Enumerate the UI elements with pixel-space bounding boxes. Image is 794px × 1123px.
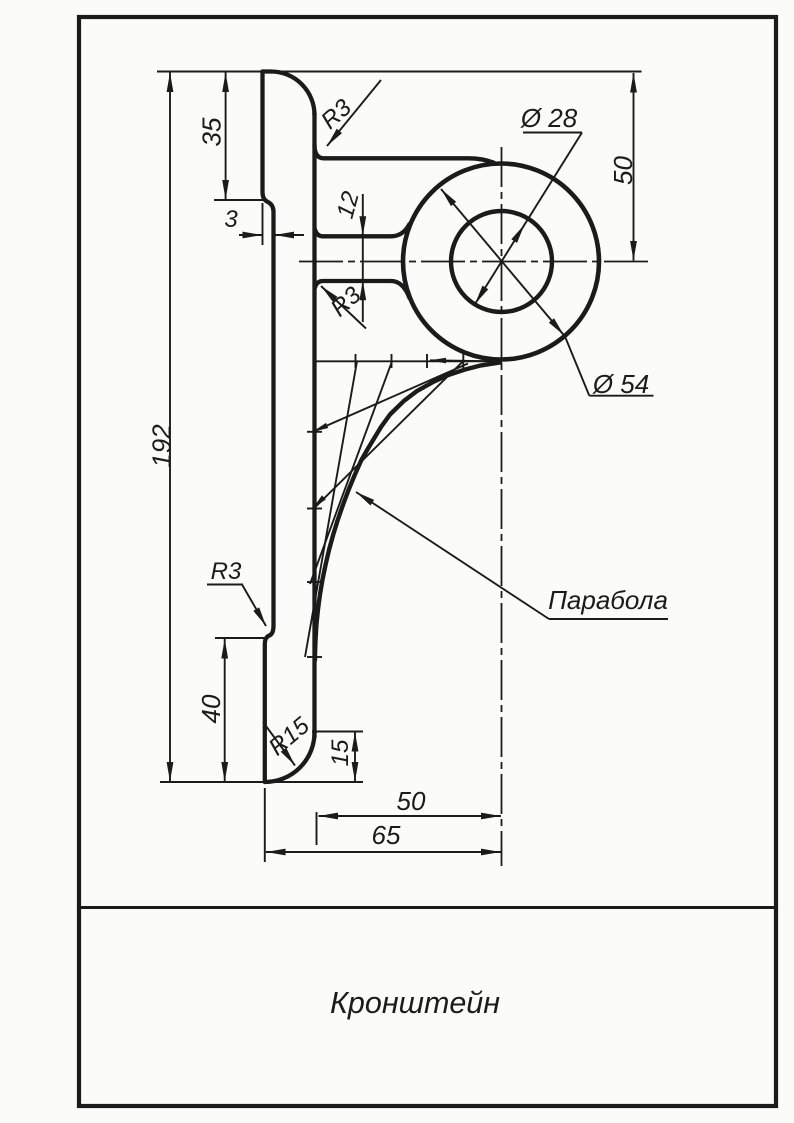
top right rounded corner [271,72,315,116]
construction arrowed segment E on horizontal line [430,360,499,361]
dim line 3 right arrow shaft [275,234,305,236]
dim line 40 [224,639,226,781]
construction arrowheads [311,423,328,435]
extension of upper left edge for dim 3 [262,203,264,245]
dim line 65 bottom [266,851,501,853]
dim 12 extension line [362,194,364,322]
35 arrows [222,73,229,93]
dim line 35 [225,73,227,200]
192 arrows [167,73,174,93]
extension line y=638 for dim 40 [215,637,265,639]
D28 diagonal arrowheads [511,223,527,243]
dimension lines [170,73,634,853]
tick marks on vertical line [307,431,322,433]
inner circle hole D28 [451,211,552,312]
15 arrows [352,732,359,752]
R3 fillet and arm top edge [315,145,495,163]
65 bottom arrows [266,849,286,856]
top edge of plate [263,69,272,73]
top extension line y=72 [157,71,642,73]
construction tangent line C [310,361,392,584]
dim line 50 right [633,73,635,261]
plate left edge with step [263,72,274,783]
part outline: bracket body [263,72,600,783]
vertical center line [501,147,503,866]
50 right arrows [630,73,637,93]
dim line 50 bottom [319,815,502,817]
svg-text:50: 50 [608,156,638,185]
3 arrows [243,232,263,239]
leader R3 neck [321,286,366,329]
svg-text:Кронштейн: Кронштейн [330,986,500,1020]
tick marks on horizontal line [355,354,357,368]
svg-text:R3: R3 [326,281,367,322]
horizontal construction line tangent to circle bottom [315,360,499,362]
plate right edge vertical line [312,113,316,737]
svg-text:Ø 28: Ø 28 [520,103,578,133]
center lines [299,147,652,866]
neck bottom edge with fillets [315,281,410,298]
construction tangent line A with arrow [314,364,468,432]
12 arrows [359,216,366,236]
D54 diagonal arrowheads [438,187,456,206]
svg-text:35: 35 [197,117,227,146]
svg-text:Ø 54: Ø 54 [592,369,649,399]
svg-text:3: 3 [224,206,238,233]
dim line 3 left arrow shaft [239,234,262,236]
construction tangent line B with arrow [314,361,463,508]
leader Parabola [356,492,668,619]
svg-text:15: 15 [327,739,354,766]
extension lines [157,72,642,863]
svg-text:R3: R3 [211,558,242,585]
leader D28 [475,133,582,305]
parabola construction lines [305,354,499,657]
leader R3 step [207,585,266,627]
40 arrows [221,639,228,659]
dimension arrowheads [167,73,637,856]
svg-text:50: 50 [397,786,426,816]
extension line y=731.5 for dim 15 [312,731,363,733]
bottom extension line y=782 [160,781,363,783]
extension x=265 for dim 65 [264,788,266,862]
outer circle boss D54 [403,164,599,360]
construction tangent line D [305,361,357,657]
leader R15 [263,722,295,766]
title block divider [79,906,776,909]
neck top edge with fillets [315,224,410,236]
extension x=316 for dim 50 bottom [316,812,318,845]
step extension line y=200 [214,199,266,201]
svg-text:192: 192 [147,424,177,468]
bottom R15 fillet [265,733,315,783]
svg-text:R3: R3 [316,94,357,135]
50 bottom arrows [319,813,339,820]
svg-text:65: 65 [372,820,401,850]
horizontal center line [299,261,652,263]
leader D54 [441,189,654,396]
dim line 15 [354,733,356,782]
svg-text:Парабола: Парабола [548,585,668,615]
leader R3 top [327,80,381,146]
svg-text:40: 40 [196,694,226,723]
parabola curve [315,363,500,661]
dim line 192 [169,73,171,782]
